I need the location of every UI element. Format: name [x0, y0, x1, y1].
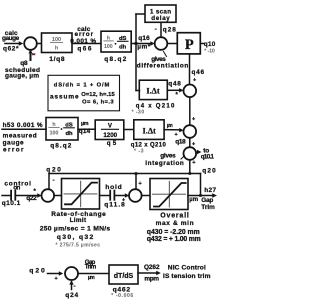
note overall max min labels — [147, 213, 201, 244]
summing junction S4 (q18) — [175, 125, 196, 145]
switch q10.1 control on — [2, 190, 42, 201]
svg-text:O=12, h=.15: O=12, h=.15 — [81, 92, 115, 98]
svg-text:+: + — [192, 160, 195, 166]
svg-text:-: - — [74, 283, 76, 290]
wire S2 to P block — [167, 43, 177, 45]
svg-text:250 µm/sec = 1 MN/s: 250 µm/sec = 1 MN/s — [40, 226, 111, 233]
wire I.dt row2 to S4, labels µm + — [164, 123, 184, 138]
svg-text:gauge, µm: gauge, µm — [5, 72, 39, 79]
block overall max min limit — [150, 179, 188, 210]
svg-text:differentiation: differentiation — [137, 63, 189, 70]
svg-text:Limit: Limit — [70, 217, 87, 224]
note rate-of-change limit labels — [40, 211, 111, 248]
summing junction S3 (P + I) — [184, 85, 197, 98]
summing junction S1 (calc gauge - scheduled gauge) — [24, 37, 37, 50]
svg-text:gauge: gauge — [3, 140, 24, 147]
svg-text:NIC Control: NIC Control — [168, 264, 206, 271]
svg-text:I.Δt: I.Δt — [143, 126, 157, 135]
svg-text:q28: q28 — [163, 27, 176, 34]
svg-text:mpm: mpm — [144, 275, 159, 282]
block assume note box — [48, 75, 120, 111]
wire S5 bottom to q20 feedback line — [190, 160, 196, 174]
svg-text:q20: q20 — [202, 168, 216, 175]
node calc gauge input label — [2, 30, 20, 53]
svg-text:q66: q66 — [77, 46, 91, 53]
svg-text:µm*: µm* — [137, 43, 151, 50]
svg-text:*: * — [176, 93, 179, 99]
wire q8 scheduled gauge input — [30, 50, 32, 60]
svg-text:+: + — [193, 78, 196, 84]
block 1/q8 (100/h) — [42, 33, 73, 63]
svg-text:+: + — [192, 141, 195, 147]
svg-text:q14: q14 — [79, 128, 91, 135]
svg-text:* -10: * -10 — [204, 48, 215, 54]
summing junction S2 (differentiator) — [155, 37, 168, 50]
svg-text:dT/dS: dT/dS — [114, 273, 134, 280]
svg-text:1/q8: 1/q8 — [49, 56, 65, 63]
svg-text:I.Δt: I.Δt — [146, 87, 160, 96]
svg-text:q30, q32: q30, q32 — [57, 234, 94, 241]
svg-text:q48: q48 — [168, 81, 181, 88]
svg-text:q10.1: q10.1 — [201, 153, 215, 160]
summing junction S6 (q22) — [42, 189, 55, 202]
svg-text:µm: µm — [167, 123, 173, 129]
svg-text:q5: q5 — [107, 140, 117, 147]
svg-text:100: 100 — [50, 131, 59, 137]
wire delay output down to S2, label -q28 — [155, 22, 177, 37]
svg-text:dh: dh — [65, 131, 73, 137]
wire S4 down to S5 — [190, 138, 195, 148]
svg-text:q24: q24 — [65, 292, 78, 299]
wire S3 down to S4 — [190, 97, 195, 125]
svg-text:dS/dh = 1 + O/M: dS/dh = 1 + O/M — [54, 82, 110, 88]
svg-text:h27: h27 — [204, 187, 216, 194]
node q8 scheduled gauge label — [5, 60, 40, 80]
svg-text:q20: q20 — [46, 166, 61, 173]
svg-text:µm: µm — [88, 275, 95, 281]
summing junction S7 — [129, 189, 142, 202]
svg-text:q18: q18 — [175, 138, 186, 145]
svg-text:1200: 1200 — [103, 132, 117, 139]
junction q20 line at integrator — [189, 172, 192, 175]
svg-text:+: + — [55, 276, 58, 282]
wire Q262 output to NIC control — [138, 264, 161, 282]
block V/1200 (q5) — [95, 120, 124, 147]
svg-text:delay: delay — [151, 15, 170, 22]
svg-text:q10: q10 — [204, 41, 216, 48]
note gives integration — [145, 153, 184, 168]
svg-text:q46: q46 — [192, 69, 205, 76]
wire q20 feedback right drop to output — [200, 174, 202, 196]
svg-text:gauge: gauge — [2, 35, 20, 42]
svg-text:+: + — [175, 132, 178, 138]
summing junction S5 (integrator) — [184, 147, 197, 160]
block q8.q2 (h/100 x dS/dh) row1 — [101, 31, 131, 63]
junction q20 tap on output wire — [199, 194, 202, 197]
wire q14 µm to V/1200 — [78, 121, 95, 135]
svg-text:q10.1: q10.1 — [2, 200, 21, 207]
block 1 scan delay — [145, 5, 176, 22]
svg-text:gives: gives — [160, 153, 176, 160]
wire measured gauge error input h53 0.001% — [2, 122, 46, 154]
block h/100 dS/dh row2 (q8.q2) — [46, 118, 78, 150]
svg-text:integration: integration — [145, 160, 184, 167]
wire S8 to dT/dS block, labels Gap Trim µm — [78, 259, 109, 281]
svg-text:on: on — [13, 185, 20, 192]
svg-text:* -30: * -30 — [132, 110, 145, 116]
svg-text:* -3: * -3 — [134, 148, 144, 154]
svg-text:q16: q16 — [138, 35, 150, 42]
node q10 output stub — [201, 41, 216, 54]
wire P output down to S3, label q46 + — [190, 54, 205, 85]
wire block q8.q2 to summing junction S2, labels q16 µm* — [131, 35, 155, 50]
svg-text:h53 0.001 %: h53 0.001 % — [3, 122, 43, 129]
svg-text:IS tension trim: IS tension trim — [163, 273, 211, 280]
summing junction S8 (q24) — [65, 267, 78, 280]
svg-text:+: + — [192, 116, 195, 122]
wire branch vertical x=136 (up to delay, down to I.dt) — [135, 14, 137, 91]
minus sign (red) at S1 — [32, 53, 35, 55]
svg-text:q62*: q62* — [3, 45, 19, 52]
svg-text:-: - — [155, 26, 157, 33]
block I.dt (first integrator gain) — [132, 80, 175, 115]
wire S6 to rate limit block — [54, 195, 61, 197]
svg-text:0.001 %: 0.001 % — [70, 38, 96, 45]
note gives differentiation — [137, 52, 189, 70]
wire into 1 scan delay — [136, 13, 145, 15]
svg-text:Q262: Q262 — [144, 264, 160, 271]
svg-text:q8.q2: q8.q2 — [50, 143, 71, 150]
svg-text:O= 6, h=.3: O= 6, h=.3 — [82, 99, 114, 105]
svg-text:Trim: Trim — [201, 204, 215, 211]
wire rate limit to hold switch — [100, 195, 110, 197]
wire calc gauge arrow into summing junction — [5, 41, 23, 46]
svg-text:q20: q20 — [29, 268, 45, 275]
node NIC Control IS tension trim — [163, 264, 211, 280]
svg-text:error: error — [75, 31, 94, 38]
block P (proportional) — [177, 33, 200, 54]
svg-text:+: + — [139, 181, 142, 187]
wire q20 drop into S7 (plus) — [136, 174, 142, 190]
wire q20 into S8 — [48, 271, 64, 282]
svg-text:µm: µm — [189, 197, 198, 203]
svg-text:max & min: max & min — [156, 220, 194, 227]
switch q11.8 hold — [104, 184, 129, 209]
wire S1 to block 1/q8 — [37, 43, 42, 45]
svg-text:Trim: Trim — [85, 263, 97, 270]
junction at branch x136 row1 — [135, 42, 138, 45]
wire q20 drop into S6 (minus) — [49, 174, 55, 190]
wire q24 input from below — [65, 280, 78, 299]
svg-text:+: + — [122, 198, 125, 204]
svg-text:100: 100 — [104, 44, 113, 50]
svg-text:assume: assume — [50, 94, 79, 101]
wire S5 output to q10.1 — [196, 147, 214, 160]
svg-text:q8: q8 — [20, 60, 28, 67]
svg-text:q22: q22 — [26, 195, 37, 202]
svg-text:P: P — [185, 37, 194, 53]
wire calc error 0.001% q66 — [70, 26, 101, 53]
node q22 label — [26, 189, 37, 202]
block I.dt row2 (q12 x Q210) — [131, 120, 167, 155]
block dT/dS (q462) — [109, 265, 138, 299]
wire I.dt to S3, label q48 — [168, 81, 184, 99]
wire gap trim output h27 — [188, 187, 217, 211]
block rate-of-change limit — [62, 179, 100, 210]
svg-text:-: - — [53, 177, 55, 184]
svg-text:measured: measured — [3, 132, 37, 139]
node control on label — [2, 181, 31, 208]
svg-text:error: error — [3, 147, 24, 154]
wire S7 to overall limit block — [142, 195, 150, 197]
junction q20 line at S7 drop — [135, 172, 138, 175]
svg-text:q430 = -2.20 mm: q430 = -2.20 mm — [147, 229, 200, 236]
svg-text:q8.q2: q8.q2 — [104, 56, 126, 63]
svg-text:* 275/7.5 µm/sec: * 275/7.5 µm/sec — [56, 242, 101, 248]
svg-text:dh: dh — [119, 44, 127, 50]
wire V/1200 to I.dt row2 — [124, 129, 134, 131]
svg-text:Overall: Overall — [160, 213, 189, 220]
svg-text:q432 = + 1.00 mm: q432 = + 1.00 mm — [147, 236, 201, 243]
wire q20 feedback line horizontal — [49, 173, 201, 175]
svg-text:µm: µm — [81, 121, 89, 127]
svg-text:* -0.006: * -0.006 — [111, 293, 133, 299]
